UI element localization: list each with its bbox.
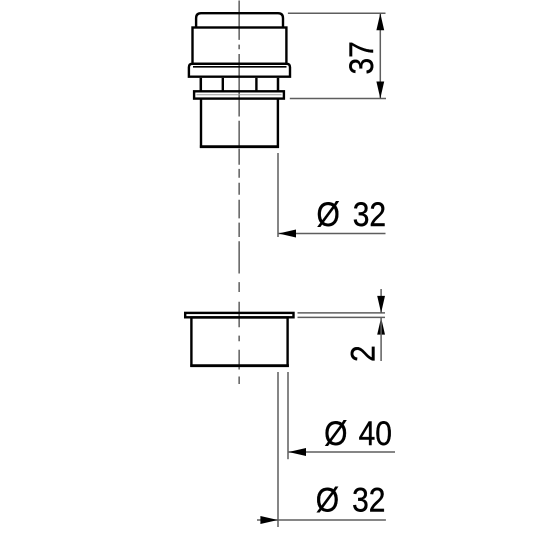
cap (top knob of fitting): [196, 13, 283, 27]
svg-text:37: 37: [342, 41, 380, 74]
ring thick bottom edge: [190, 364, 289, 367]
dim 2 extension line lower: [298, 316, 386, 318]
pipe thick bottom edge: [200, 145, 279, 148]
dim O32 bottom arrow right: [260, 516, 278, 524]
dim 2 lower tail: [380, 318, 382, 361]
svg-text:40: 40: [359, 414, 392, 452]
ring rim (seal flange): [185, 313, 293, 317]
svg-text:2: 2: [344, 345, 382, 362]
band (lock ring): [194, 91, 284, 98]
dim 2 extension line upper: [298, 312, 386, 314]
dim 37 extension line top: [288, 12, 386, 14]
ring body: [191, 318, 287, 366]
dim 2 arrow up: [377, 318, 385, 335]
dim 37 dimension line: [379, 13, 381, 98]
band faint inner line: [197, 94, 282, 96]
svg-text:Ø: Ø: [324, 414, 347, 452]
dim 2 upper tail: [380, 289, 382, 313]
svg-text:32: 32: [352, 481, 385, 519]
body (upper hex body): [193, 28, 287, 64]
flange: [189, 64, 290, 77]
svg-text:32: 32: [353, 195, 386, 233]
dim 37 arrow down: [376, 82, 384, 99]
pipe (lower spigot): [201, 99, 278, 147]
extension line O32 below ring: [277, 372, 279, 527]
svg-text:Ø: Ø: [317, 195, 340, 233]
extension line O40 below ring: [287, 372, 289, 459]
dim O32 mid dimension line: [279, 233, 386, 235]
dim O40 arrow left: [289, 448, 307, 456]
flange chamfer line: [193, 66, 287, 68]
dim O32 bottom dimension line: [257, 519, 386, 521]
dim O32 mid arrow left: [279, 230, 297, 238]
centerline: [238, 1, 240, 385]
dim 2 arrow down: [377, 296, 385, 313]
dim 37 extension line bottom: [290, 98, 386, 100]
dim 37 arrow up: [376, 13, 384, 30]
dim O40 dimension line: [289, 451, 396, 453]
dim O32 mid extension line: [277, 153, 279, 237]
svg-text:Ø: Ø: [316, 481, 339, 519]
castellation slot lines: [200, 78, 203, 92]
